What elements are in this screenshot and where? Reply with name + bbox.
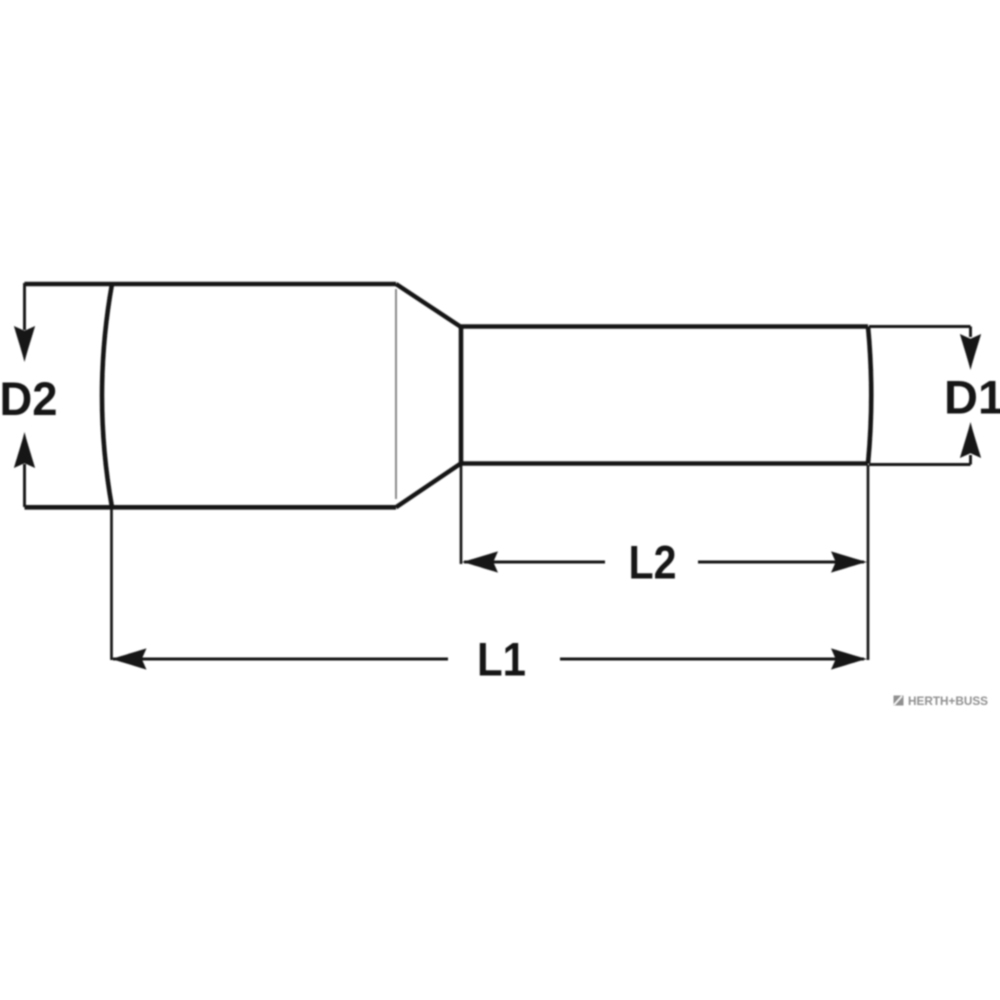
dimension L1 left arrow (points left) (111, 648, 147, 669)
dimension D1 top extension line (869, 325, 971, 328)
svg-text:D2: D2 (0, 372, 58, 425)
dimension D2 line upper shaft (23, 283, 26, 330)
dimension L2 right arrow (points right) (831, 551, 867, 572)
svg-text:D1: D1 (944, 371, 1000, 424)
dimension L1 right shaft (560, 658, 864, 661)
collar internal edge (395, 289, 397, 499)
dimension D1 bottom extension line (869, 463, 971, 466)
dimension D1 lower arrow (points up) (960, 422, 981, 458)
dimension L1 left shaft (113, 658, 448, 661)
dimension L1 right arrow (points right) (831, 648, 867, 669)
svg-text:HERTH+BUSS: HERTH+BUSS (908, 694, 988, 708)
dimension L2 left shaft (464, 561, 605, 564)
watermark logo mark (894, 696, 904, 706)
tube bottom line (459, 461, 868, 466)
dimension D1 line upper shaft (969, 327, 972, 338)
dimension D1 line lower shaft (969, 455, 972, 465)
dimension L2 right extension line shared with L1 (867, 465, 870, 660)
dimension L2 left arrow (points left) (462, 551, 498, 572)
svg-text:L1: L1 (477, 633, 526, 686)
taper bottom line (396, 464, 460, 507)
dimension L2 right shaft (698, 561, 864, 564)
taper top line (396, 284, 461, 327)
ferrule collar left arc (102, 284, 112, 507)
svg-text:L2: L2 (629, 536, 677, 589)
dimension L1 left extension line (110, 508, 113, 660)
collar top line with D2 extension (25, 282, 397, 287)
tube right arc (868, 327, 871, 464)
dimension D2 upper arrow (points down) (14, 326, 35, 362)
watermark logo diagonal (894, 696, 902, 705)
tube left edge (459, 326, 464, 465)
tube top line (461, 324, 868, 329)
collar bottom line with D2 extension (25, 505, 397, 510)
dimension D2 line lower shaft (23, 464, 26, 507)
dimension D2 lower arrow (points up) (14, 432, 35, 468)
dimension D1 upper arrow (points down) (960, 334, 981, 370)
dimension L2 left extension line (460, 465, 463, 564)
